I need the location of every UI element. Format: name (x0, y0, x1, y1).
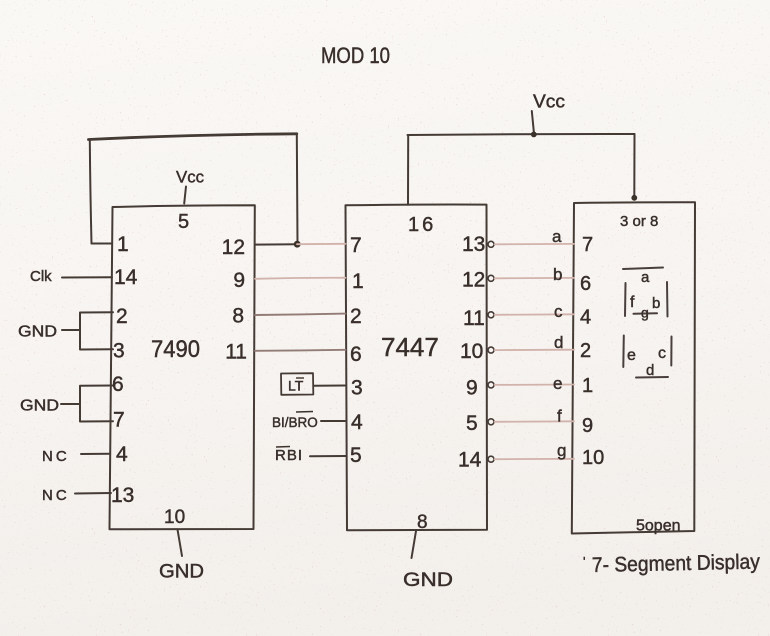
svg-text:c: c (658, 345, 666, 362)
wire: BI/BRO to 7447 pin 4 (321, 420, 345, 422)
svg-text:13: 13 (462, 233, 485, 256)
svg-text:9: 9 (582, 415, 593, 437)
svg-text:': ' (583, 554, 585, 569)
wire a (495, 243, 575, 245)
overbar on BRO (296, 411, 313, 414)
svg-text:Vcc: Vcc (533, 92, 565, 112)
svg-text:Clk: Clk (30, 268, 52, 285)
wire d (495, 349, 575, 351)
wire: GND bracket pins 2-3 (80, 312, 113, 349)
wire f (495, 420, 575, 423)
svg-text:f: f (557, 407, 562, 426)
svg-text:5: 5 (178, 211, 189, 233)
bubble pin 11 (488, 312, 494, 318)
svg-text:2: 2 (350, 305, 362, 328)
wire: Vcc tick above 7490 pin 5 (184, 187, 186, 204)
svg-text:Vcc: Vcc (176, 168, 204, 187)
faint interconnect wires 7490 to 7447 (255, 244, 346, 279)
svg-text:NC: NC (42, 487, 70, 504)
segment g bar (634, 312, 658, 315)
wire e (495, 384, 575, 386)
svg-text:d: d (646, 362, 654, 379)
svg-text:4: 4 (116, 443, 128, 466)
7-segment sketch inside display (623, 268, 672, 378)
overbar on RBI (276, 446, 290, 449)
wire: 7490 pin 9 to 7447 pin 1 (255, 278, 346, 279)
IC U2 7447 box (346, 205, 488, 531)
svg-text:12: 12 (222, 236, 245, 259)
segment f bar (left upper) (624, 283, 627, 316)
svg-text:g: g (557, 441, 566, 460)
svg-text:a: a (552, 227, 562, 246)
svg-text:11: 11 (225, 341, 247, 364)
svg-text:GND: GND (403, 570, 453, 591)
svg-text:8: 8 (232, 305, 244, 328)
bubble pin 13 (488, 241, 494, 247)
svg-text:7: 7 (350, 234, 362, 257)
svg-text:11: 11 (463, 307, 485, 330)
junction dot at display Vcc entry (631, 195, 637, 201)
svg-text:NC: NC (42, 448, 70, 465)
wire c (495, 313, 575, 316)
svg-text:GND: GND (20, 398, 59, 415)
svg-text:d: d (554, 333, 563, 352)
svg-text:7- Segment Display: 7- Segment Display (592, 550, 761, 577)
svg-text:3: 3 (113, 340, 125, 363)
svg-text:5open: 5open (636, 518, 681, 535)
svg-text:LT: LT (288, 378, 304, 394)
faint segment wires 7447 to display (495, 244, 575, 459)
segment d bar (636, 376, 668, 379)
output bubbles on 7447 (488, 241, 494, 462)
wire: feedback loop right vertical (296, 134, 299, 244)
bubble pin 10 (488, 347, 494, 353)
LT input box (281, 373, 313, 395)
bubble pin 9 (488, 382, 494, 388)
svg-text:4: 4 (580, 307, 591, 329)
svg-text:GND: GND (18, 324, 57, 341)
svg-text:a: a (641, 269, 650, 286)
wire g (495, 458, 575, 460)
wire: NC to pin 4 (81, 453, 110, 455)
segment e bar (left lower) (622, 336, 625, 368)
svg-text:7: 7 (582, 234, 593, 256)
wire: 7490 pin 10 to GND (178, 530, 183, 557)
svg-text:7447: 7447 (381, 332, 439, 362)
wire: 7447 pin 8 to GND (412, 531, 417, 558)
svg-text:g: g (641, 305, 649, 321)
wire: Vcc net top horizontal (408, 134, 635, 135)
wire: NC to pin 13 (75, 492, 111, 495)
svg-text:c: c (554, 302, 563, 321)
svg-text:1: 1 (117, 233, 129, 256)
wire b (495, 277, 575, 279)
svg-text:5: 5 (350, 444, 362, 467)
svg-text:7490: 7490 (151, 336, 200, 363)
svg-text:3: 3 (351, 377, 363, 400)
svg-text:6: 6 (350, 343, 362, 366)
svg-text:e: e (553, 374, 562, 393)
svg-text:10: 10 (582, 447, 604, 469)
bubble pin 12 (488, 275, 494, 281)
svg-text:10: 10 (164, 507, 185, 528)
svg-text:12: 12 (462, 269, 485, 292)
junction dot on Vcc net (531, 132, 537, 138)
wire: 7490 pin 11 to 7447 pin 6 (255, 350, 346, 351)
wire: GND lead 1 (62, 329, 80, 331)
wire: GND lead 2 (61, 403, 80, 405)
wire: junction to 7447 pin 7 (faint part) (297, 243, 346, 245)
wire: CLK to pin 14 (62, 276, 112, 278)
segment a bar (623, 268, 663, 270)
bubble pin 5 (488, 419, 494, 425)
svg-text:1: 1 (582, 375, 593, 397)
svg-text:14: 14 (458, 449, 482, 472)
svg-text:10: 10 (460, 340, 483, 363)
wire: feedback loop pin1 to pin12 net, left vertical (90, 140, 92, 244)
svg-text:14: 14 (114, 266, 138, 289)
svg-text:f: f (630, 294, 635, 311)
svg-text:4: 4 (351, 411, 363, 434)
svg-text:1: 1 (352, 270, 364, 293)
svg-text:13: 13 (111, 484, 134, 507)
svg-text:2: 2 (116, 305, 128, 328)
svg-text:6: 6 (112, 373, 124, 396)
svg-text:e: e (627, 347, 636, 364)
svg-text:16: 16 (408, 214, 436, 236)
svg-text:9: 9 (466, 377, 478, 400)
svg-text:GND: GND (159, 562, 204, 583)
svg-text:5: 5 (466, 412, 478, 435)
wire: 7490 pin12 to junction (dark part) (255, 243, 297, 245)
wire: Vcc drop to display pin 3/8 (633, 134, 635, 198)
overbar on LT (296, 377, 304, 379)
svg-text:9: 9 (233, 269, 245, 292)
svg-text:BI/BRO: BI/BRO (272, 415, 318, 430)
overbars on labels (276, 378, 313, 447)
svg-text:8: 8 (417, 512, 428, 533)
junction dot at pin12 net (294, 241, 301, 248)
bubble pin 14 (488, 456, 494, 462)
svg-text:6: 6 (580, 273, 591, 295)
wire: GND bracket pins 6-7 (80, 386, 113, 422)
svg-text:b: b (553, 265, 562, 284)
segment c bar (right lower) (670, 337, 672, 366)
svg-text:3 or 8: 3 or 8 (620, 213, 658, 230)
segment b bar (right upper) (666, 282, 669, 317)
wire: 7490 pin 8 to 7447 pin 2 (255, 314, 346, 315)
svg-text:b: b (652, 295, 660, 312)
wire: LT box to 7447 pin 3 (314, 385, 346, 387)
wire: Vcc drop to 7447 pin 16 (407, 135, 409, 205)
wire: feedback loop top horizontal (89, 134, 297, 140)
wire: RBI to 7447 pin 5 (310, 455, 346, 457)
svg-text:2: 2 (580, 340, 591, 362)
svg-text:MOD 10: MOD 10 (321, 43, 390, 68)
svg-text:7: 7 (113, 409, 125, 432)
wire: Vcc label tick (532, 111, 534, 134)
7-segment display box (572, 202, 695, 533)
svg-text:RBI: RBI (275, 447, 303, 464)
wire: pin 1 stub (92, 243, 113, 245)
IC U1 7490 box (110, 205, 255, 529)
